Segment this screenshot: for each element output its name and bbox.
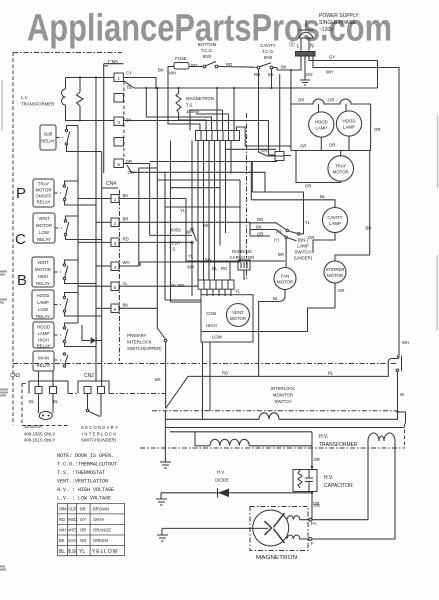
svg-text:OR: OR	[314, 457, 320, 462]
svg-text:C: C	[15, 231, 26, 248]
svg-text:T.S. :THERMOSTAT: T.S. :THERMOSTAT	[57, 470, 105, 476]
svg-text:BROWN: BROWN	[93, 507, 109, 512]
svg-text:FUSE: FUSE	[175, 56, 187, 61]
svg-text:LOW: LOW	[212, 335, 223, 340]
svg-text:YL: YL	[123, 281, 129, 286]
svg-text:BR: BR	[278, 252, 284, 257]
svg-text:ON/OFF: ON/OFF	[35, 194, 52, 199]
svg-text:BR: BR	[123, 217, 129, 222]
svg-text:ORANGE: ORANGE	[93, 528, 111, 533]
svg-text:HIGH: HIGH	[38, 274, 49, 279]
svg-text:CN2: CN2	[84, 373, 94, 379]
svg-text:CY: CY	[126, 71, 132, 76]
svg-text:MOTOR: MOTOR	[35, 267, 51, 272]
svg-text:F: F	[311, 541, 314, 546]
svg-text:VENT: VENT	[169, 241, 181, 246]
svg-text:RD: RD	[178, 283, 184, 288]
svg-text:TRANSFORMER: TRANSFORMER	[319, 442, 358, 448]
svg-text:SINGLE PHASE: SINGLE PHASE	[319, 20, 356, 26]
svg-text:®: ®	[289, 40, 295, 49]
svg-text:WH: WH	[59, 528, 66, 533]
svg-text:LOW: LOW	[39, 230, 50, 235]
svg-text:BL: BL	[328, 371, 334, 376]
svg-text:RELAY: RELAY	[41, 139, 55, 144]
svg-text:RD: RD	[123, 237, 129, 242]
svg-text:BLACK: BLACK	[68, 538, 76, 543]
svg-text:FAN: FAN	[281, 274, 289, 279]
svg-text:BK: BK	[281, 65, 287, 70]
svg-text:HOOD: HOOD	[37, 293, 50, 298]
svg-text:NOTE: DOOR IS OPEN.: NOTE: DOOR IS OPEN.	[57, 453, 114, 459]
svg-text:YELLOW: YELLOW	[92, 549, 118, 555]
svg-text:CN5: CN5	[108, 60, 118, 66]
svg-text:BL: BL	[29, 399, 35, 404]
svg-text:H.V.: H.V.	[217, 470, 225, 475]
svg-text:TRAY: TRAY	[335, 164, 346, 169]
svg-text:TRAY: TRAY	[38, 182, 49, 187]
svg-text:SECONDARY: SECONDARY	[81, 425, 119, 430]
svg-text:BL: BL	[53, 399, 59, 404]
svg-text:RELAY: RELAY	[37, 363, 51, 368]
svg-text:P: P	[16, 185, 26, 202]
svg-text:RD: RD	[254, 72, 260, 77]
svg-text:(BN-): (BN-)	[298, 238, 309, 243]
svg-text:GN: GN	[306, 72, 312, 77]
svg-text:H.V. : HIGH VOLTAGE: H.V. : HIGH VOLTAGE	[57, 487, 114, 493]
svg-text:MOTOR: MOTOR	[277, 280, 293, 285]
svg-text:BK: BK	[123, 303, 129, 308]
svg-text:BL: BL	[212, 266, 218, 271]
svg-text:VENT: VENT	[38, 216, 50, 221]
svg-text:CN3: CN3	[10, 373, 20, 379]
svg-text:CAPACITOR: CAPACITOR	[230, 255, 255, 260]
svg-text:RUNNING: RUNNING	[232, 249, 253, 254]
svg-text:YL: YL	[180, 208, 186, 213]
svg-text:MOTOR: MOTOR	[36, 223, 52, 228]
svg-text:MOTOR: MOTOR	[230, 316, 246, 321]
svg-text:SWITCH(UPPER): SWITCH(UPPER)	[127, 346, 162, 351]
svg-text:HOOD: HOOD	[37, 325, 50, 330]
svg-text:BOTTOM: BOTTOM	[198, 42, 217, 47]
svg-text:YL: YL	[79, 549, 85, 555]
svg-text:RD: RD	[191, 63, 197, 68]
svg-text:BK: BK	[59, 538, 65, 543]
svg-text:INTERLOCK: INTERLOCK	[82, 432, 117, 437]
svg-text:CAVITY: CAVITY	[327, 215, 342, 220]
svg-text:OR: OR	[338, 288, 344, 293]
svg-text:~120V: ~120V	[319, 27, 334, 33]
svg-text:B: B	[17, 272, 27, 289]
svg-text:MOTOR: MOTOR	[327, 273, 343, 278]
svg-text:WH: WH	[402, 340, 409, 345]
svg-text:RD: RD	[257, 217, 263, 222]
svg-text:H.V.: H.V.	[319, 434, 328, 440]
svg-text:VENT: VENT	[37, 260, 49, 265]
svg-text:T.C.O.: T.C.O.	[201, 48, 213, 53]
svg-text:TRANSFORMER: TRANSFORMER	[21, 102, 54, 107]
svg-text:BK: BK	[256, 225, 262, 230]
svg-text:LOW: LOW	[38, 307, 49, 312]
svg-text:L.V. : LOW VOLTAGE: L.V. : LOW VOLTAGE	[57, 496, 111, 502]
svg-text:RD: RD	[226, 62, 232, 67]
svg-text:CN4: CN4	[106, 181, 116, 187]
svg-text:RD: RD	[222, 371, 228, 376]
svg-text:GREEN: GREEN	[93, 538, 108, 543]
svg-text:RELAY: RELAY	[37, 237, 51, 242]
svg-text:MONITOR: MONITOR	[273, 393, 293, 398]
svg-text:LAMP: LAMP	[315, 126, 327, 131]
svg-text:RELAY: RELAY	[37, 200, 51, 205]
svg-text:SWITCH(UNDER): SWITCH(UNDER)	[81, 438, 117, 443]
svg-text:BR: BR	[366, 226, 372, 231]
svg-text:OR: OR	[313, 501, 319, 506]
svg-text:COM: COM	[206, 311, 216, 316]
svg-text:T.S.: T.S.	[169, 247, 176, 252]
svg-text:H.V.: H.V.	[324, 475, 333, 481]
svg-text:INTERLOCK: INTERLOCK	[127, 340, 152, 345]
svg-text:SENSOR: SENSOR	[24, 424, 42, 429]
svg-text:MAGNETRON: MAGNETRON	[186, 96, 214, 101]
svg-text:OR: OR	[261, 148, 267, 153]
svg-text:OR: OR	[298, 98, 304, 103]
svg-text:400-151S ONLY: 400-151S ONLY	[24, 438, 55, 443]
svg-text:400-150S ONLY: 400-150S ONLY	[24, 432, 55, 437]
svg-text:VENT.:VENTILATION: VENT.:VENTILATION	[57, 479, 108, 485]
svg-text:INTERLOCK: INTERLOCK	[271, 386, 296, 391]
svg-text:HIGH: HIGH	[38, 338, 49, 343]
svg-text:YL: YL	[188, 254, 194, 259]
svg-text:(UNDER): (UNDER)	[294, 256, 313, 261]
svg-text:BK: BK	[155, 377, 161, 382]
svg-text:MOTOR: MOTOR	[36, 188, 52, 193]
svg-text:OR: OR	[374, 127, 380, 132]
svg-text:BN: BN	[205, 258, 211, 263]
svg-text:MAIN: MAIN	[38, 356, 49, 361]
svg-text:SUB: SUB	[44, 132, 53, 137]
svg-text:BL: BL	[273, 296, 279, 301]
svg-text:OR: OR	[328, 98, 334, 103]
svg-text:WH: WH	[326, 70, 333, 75]
svg-text:COLOR: COLOR	[68, 507, 76, 512]
svg-text:CAPACITOR: CAPACITOR	[324, 483, 353, 489]
svg-text:GY: GY	[329, 55, 335, 60]
svg-text:GN: GN	[80, 538, 86, 543]
svg-text:HOOD: HOOD	[343, 119, 356, 124]
svg-text:CAVITY: CAVITY	[260, 43, 275, 48]
svg-text:OR: OR	[329, 143, 335, 148]
svg-text:WH: WH	[123, 260, 130, 265]
svg-text:BK: BK	[158, 68, 164, 73]
svg-text:WH: WH	[186, 230, 193, 235]
svg-text:VENT: VENT	[232, 310, 244, 315]
svg-text:DIODE: DIODE	[215, 478, 229, 483]
svg-text:WHITE: WHITE	[68, 528, 76, 533]
svg-text:T.S.: T.S.	[186, 103, 193, 108]
svg-text:FA: FA	[311, 521, 316, 526]
svg-text:40/56: 40/56	[170, 228, 181, 233]
svg-text:RED: RED	[68, 517, 77, 522]
svg-text:GRAY: GRAY	[93, 517, 105, 522]
svg-text:(+): (+)	[274, 238, 280, 243]
svg-text:SWITCH: SWITCH	[295, 250, 312, 255]
svg-text:BK: BK	[268, 72, 274, 77]
svg-text:WH: WH	[187, 265, 194, 270]
svg-text:GY: GY	[80, 517, 86, 522]
svg-text:STIRRER: STIRRER	[326, 267, 345, 272]
svg-text:W.: W.	[400, 392, 405, 397]
svg-text:OR: OR	[308, 235, 314, 240]
svg-text:SYM: SYM	[59, 507, 67, 512]
svg-text:RELAY: RELAY	[36, 314, 50, 319]
svg-text:90/0: 90/0	[203, 54, 212, 59]
svg-text:YL: YL	[235, 289, 241, 294]
svg-text:RD: RD	[221, 266, 227, 271]
svg-text:POWER SUPPLY:: POWER SUPPLY:	[319, 13, 360, 19]
svg-text:L: L	[297, 44, 300, 50]
svg-text:HOOD: HOOD	[315, 120, 328, 125]
svg-text:OR: OR	[305, 184, 311, 189]
svg-text:YL: YL	[305, 220, 311, 225]
svg-text:BR: BR	[80, 507, 86, 512]
svg-text:T.C.O.:THERMALCUTOUT: T.C.O.:THERMALCUTOUT	[57, 462, 117, 468]
svg-text:LAMP: LAMP	[329, 221, 341, 226]
svg-text:BLUE: BLUE	[68, 549, 76, 555]
svg-text:BK: BK	[123, 193, 129, 198]
svg-text:OR: OR	[300, 144, 306, 149]
svg-text:MOTOR: MOTOR	[333, 170, 349, 175]
svg-text:MAGNETRON: MAGNETRON	[256, 555, 297, 561]
svg-text:BK: BK	[203, 223, 209, 228]
svg-text:LAMP: LAMP	[38, 331, 50, 336]
svg-text:RELAY: RELAY	[37, 344, 51, 349]
svg-text:L.V.: L.V.	[21, 95, 28, 100]
svg-text:90/0: 90/0	[264, 55, 273, 60]
svg-text:LAMP: LAMP	[343, 125, 355, 130]
svg-text:RD: RD	[59, 517, 65, 522]
svg-text:WH: WH	[169, 71, 176, 76]
svg-text:RELAY: RELAY	[36, 281, 50, 286]
svg-text:LAMP: LAMP	[297, 244, 309, 249]
svg-text:HIGH: HIGH	[206, 323, 217, 328]
svg-text:OR: OR	[80, 528, 86, 533]
svg-text:BL: BL	[59, 549, 65, 555]
svg-text:PRIMARY: PRIMARY	[127, 333, 147, 338]
svg-text:SWITCH: SWITCH	[275, 399, 292, 404]
svg-text:LAMP: LAMP	[37, 300, 49, 305]
svg-text:N: N	[310, 44, 314, 50]
svg-text:T.C.O.: T.C.O.	[262, 49, 274, 54]
svg-text:BL: BL	[320, 194, 326, 199]
